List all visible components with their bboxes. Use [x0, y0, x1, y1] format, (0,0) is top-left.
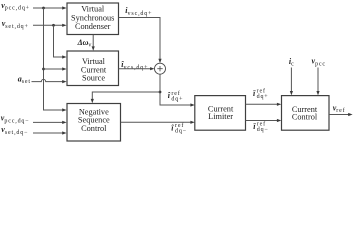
- box Negative Sequence Control: [67, 104, 121, 142]
- wire v_set,dq- into NSC: [33, 131, 67, 134]
- wire feedback to NSC top: [91, 92, 160, 103]
- wire Current Limiter lower output to Current Control: [246, 119, 282, 122]
- svg-text:Limiter: Limiter: [208, 112, 233, 121]
- wire NSC output to Current Limiter: [121, 121, 195, 124]
- svg-text:Condenser: Condenser: [75, 22, 111, 31]
- wire v_pcc,dq- into NSC: [33, 121, 67, 124]
- wire VCS output to summing node: [119, 67, 155, 70]
- svg-text:Control: Control: [292, 113, 318, 122]
- box Virtual Synchronous Condenser: [67, 3, 119, 35]
- wire branch v_pcc,dq+ down to NSC: [44, 8, 67, 112]
- wire VSC output to summing node: [119, 18, 162, 64]
- box Current Control: [282, 96, 330, 131]
- node feedback junction: [159, 91, 162, 94]
- box Virtual Current Source: [67, 51, 119, 86]
- wire a_set into VCS with hop over branch: [32, 79, 67, 83]
- wire i_c into Current Control top: [290, 68, 293, 96]
- wire Current Limiter upper output to Current Control: [246, 103, 282, 106]
- wire branch into VCS middle input: [44, 67, 67, 70]
- svg-text:Virtual: Virtual: [81, 5, 105, 14]
- wire v_pcc,dq+ into VSC: [33, 6, 67, 9]
- svg-text:Synchronous: Synchronous: [71, 13, 114, 22]
- wire branch v_set,dq+ down into VCS top input: [54, 25, 67, 58]
- wire summing node output to Current Limiter: [160, 74, 195, 106]
- wire v_pcc into Current Control top: [316, 68, 319, 96]
- svg-text:Control: Control: [81, 124, 107, 133]
- svg-text:Source: Source: [82, 74, 105, 83]
- node junction on v_pcc,dq+: [42, 7, 45, 10]
- box Current Limiter: [195, 96, 246, 131]
- wire v_ref output: [329, 113, 353, 116]
- node junction on v_set,dq+: [52, 24, 55, 27]
- node junction on branch at VCS input: [42, 68, 45, 71]
- wire v_set,dq+ into VSC: [33, 24, 67, 27]
- summing node: [155, 63, 166, 74]
- wire Delta omega from VSC to VCS: [92, 35, 95, 51]
